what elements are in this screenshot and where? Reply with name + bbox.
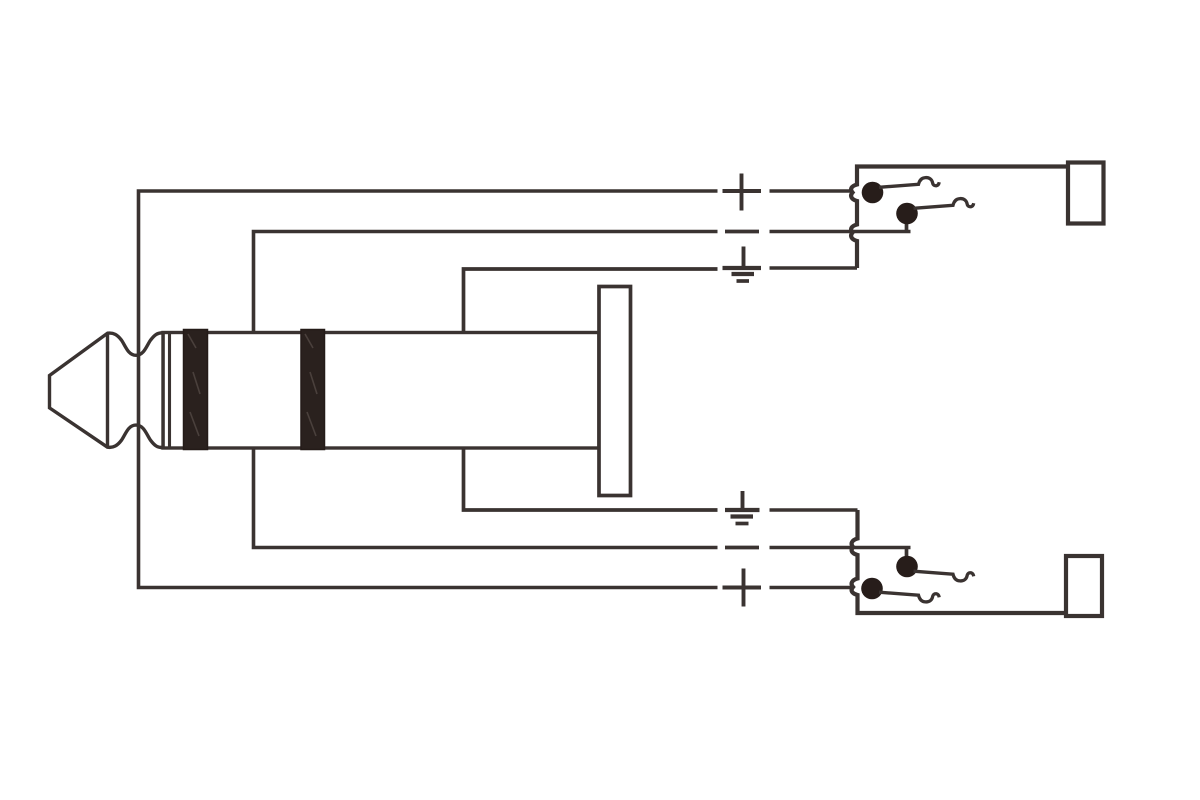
wire: top ring dash segment at break [725,230,759,234]
plug: tip cone outline [50,333,164,448]
socket: top tip contact spring squiggle [879,178,939,188]
symbol: plus (signal) marker on top hot wire [740,174,744,211]
wire: top ground resume segment to socket [770,266,858,270]
socket: top tip solder dot [862,182,884,204]
plug: ring divider line [168,333,171,449]
socket: top lug stub to ring dot [905,218,909,232]
socket: bottom ring solder dot [896,556,918,578]
wire: bottom R+ resume segment to socket [770,586,853,590]
wire: top ground dash segment at break [723,266,762,270]
socket: bottom lug stub to ring dot [905,548,909,562]
socket: top ring contact spring squiggle [914,199,974,209]
socket: top bushing rectangle [1068,163,1104,224]
plug: flange rectangle at rear of barrel [599,287,631,496]
plug: insulator band 1 (dark) [184,330,208,450]
wire: bottom R+ dash segment at break [723,586,762,590]
socket: bottom bushing rectangle [1066,556,1102,616]
wire: bottom ring dash segment at break [725,546,759,550]
wire: ring conductor run (left vertical + upper/lower horizontals, hidden behind plug body) [254,232,718,548]
symbol: earth ground on top sleeve wire (tick + bars) [742,247,746,269]
wire: bottom ring resume segment past socket to lug [770,546,911,550]
symbol: earth ground on bottom sleeve wire (tick + bars) [741,491,745,510]
socket: bottom jack bracket with spring-clip hooks and rail to bushing [852,510,1066,613]
socket: top jack bracket with spring-clip hooks and rail to bushing [851,167,1068,269]
wire: bottom ground dash segment at break [725,508,760,512]
wire: top L+ resume segment to socket [770,189,853,193]
plug: insulator band 2 (dark) [301,330,325,450]
wire: tip conductor run (left vertical through tip waist + upper/lower horizontals) [139,191,718,588]
wire: sleeve conductor run (inner vertical + upper/lower horizontals, hidden behind plug body) [464,269,718,510]
wire: bottom ground resume segment to socket [770,508,858,512]
socket: bottom tip contact spring squiggle [879,592,939,602]
wire: top L+ dash segment at break [723,189,762,193]
socket: bottom tip solder dot [861,578,883,600]
wire: top ring resume segment past socket to lug [770,230,911,234]
symbol: plus (signal) marker on bottom hot wire [742,569,746,607]
plug: tip cone base edge [106,333,109,447]
socket: bottom ring contact spring squiggle [914,571,974,581]
socket: top ring solder dot [896,203,918,225]
plug: barrel body of 6.35mm TRS jack [163,333,599,449]
